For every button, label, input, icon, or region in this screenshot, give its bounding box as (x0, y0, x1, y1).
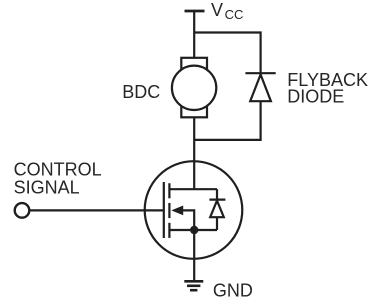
Q1 body connection with arrow tail (183, 210, 195, 230)
Q1 body diode upper lead (216, 189, 218, 199)
power symbol VCC (185, 10, 205, 13)
Q1 body diode triangle (210, 201, 224, 218)
Q1 source lead (169, 229, 217, 231)
Q1 channel segment (bottom) (168, 223, 170, 238)
motor BDC brush (top) (181, 58, 207, 69)
Q1 body diode cathode bar (209, 199, 225, 201)
Q1 channel segment (top) (168, 183, 170, 198)
ground symbol (184, 281, 203, 290)
wire: top branch from VCC node to flyback diode cathode (194, 33, 260, 74)
motor BDC brush (bottom) (181, 107, 207, 118)
transistor Q1 envelope (145, 161, 243, 259)
Q1 channel segment (middle) (168, 203, 170, 218)
flyback diode D1 cathode bar (245, 72, 275, 74)
Q1 drain lead (169, 188, 217, 190)
wire: gate from control terminal to Q1 gate (30, 209, 164, 211)
flyback diode D1 triangle (250, 75, 271, 102)
junction: source node dot (190, 226, 198, 234)
svg-text:CC: CC (225, 7, 244, 22)
Q1 body diode lower lead (216, 217, 218, 230)
svg-text:GND: GND (213, 280, 253, 300)
wire: flyback diode anode to drain node (194, 101, 260, 140)
Q1 body arrow head (171, 206, 183, 216)
wire: VCC bar down to motor top (193, 11, 195, 58)
svg-text:DIODE: DIODE (287, 87, 344, 107)
wire: motor bottom to MOSFET drain (193, 117, 195, 189)
svg-text:SIGNAL: SIGNAL (14, 177, 80, 197)
terminal: control signal input (15, 203, 30, 218)
wire: source to ground (193, 230, 195, 281)
svg-text:V: V (211, 0, 223, 20)
motor BDC body (172, 66, 216, 110)
svg-text:BDC: BDC (122, 82, 160, 102)
Q1 gate bar (163, 182, 165, 238)
